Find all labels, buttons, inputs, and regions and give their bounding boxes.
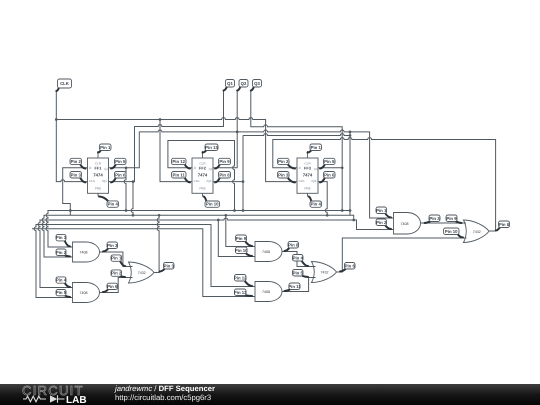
pin label FF3 pin 2 (D) bbox=[278, 158, 296, 168]
pin label AND1 pin 2 bbox=[56, 249, 70, 257]
junction bus B2 to middle AND3 input 1 bbox=[224, 214, 227, 217]
svg-text:7474: 7474 bbox=[93, 172, 103, 177]
svg-text:Q2: Q2 bbox=[209, 168, 213, 171]
wire FF3 Q3 output stub bbox=[318, 167, 343, 169]
svg-text:Pin 2: Pin 2 bbox=[71, 159, 82, 164]
svg-text:FF1: FF1 bbox=[95, 165, 103, 170]
pin label OR2 pin 5 bbox=[293, 270, 309, 278]
svg-text:Pin 10: Pin 10 bbox=[206, 202, 219, 207]
svg-text:Pin 1: Pin 1 bbox=[56, 235, 67, 240]
wire bus B4 to middle AND4 input 1 bbox=[34, 225, 255, 298]
junction CLK bus to FF2 branch bbox=[159, 118, 162, 121]
svg-text:Pin 2: Pin 2 bbox=[111, 271, 122, 276]
pin label OR1 pin 2 bbox=[111, 270, 125, 277]
pin label AND1 pin 3 output bbox=[103, 242, 118, 252]
svg-text:PRE: PRE bbox=[95, 187, 101, 191]
svg-text:Q3: Q3 bbox=[254, 81, 260, 86]
wire bus B2 bbox=[42, 215, 350, 257]
wire CLK branch to FF2 CLK input bbox=[160, 120, 192, 182]
junction /Q2 on bus B1 bbox=[242, 209, 245, 212]
pin label AND3 pin 10 bbox=[235, 247, 252, 256]
svg-text:Pin 3: Pin 3 bbox=[164, 263, 175, 268]
svg-text:Pin 5: Pin 5 bbox=[293, 270, 304, 275]
svg-text:Pin 3: Pin 3 bbox=[71, 172, 82, 177]
pin label FF3 pin 4 (PRE) bbox=[309, 197, 322, 208]
wire OR2 output to OR3 input 2 bbox=[337, 238, 467, 272]
wire Q3 label riser and bus drop bbox=[251, 91, 342, 211]
svg-text:Pin 4: Pin 4 bbox=[108, 202, 119, 207]
wire /Q2 line to long drop bbox=[243, 134, 350, 136]
wire FF2 /Q2 output stub bbox=[213, 181, 244, 183]
svg-text:7474: 7474 bbox=[198, 172, 208, 177]
svg-text:PRE: PRE bbox=[199, 187, 205, 191]
wire AND4 output to OR2 input 2 bbox=[282, 278, 316, 292]
wire CLK bus to FF3 CLK input bbox=[56, 118, 297, 182]
wire FF1 D input feed from bus bbox=[63, 168, 88, 216]
svg-text:7408: 7408 bbox=[80, 291, 88, 295]
pin label AND5 pin 1 bbox=[376, 207, 391, 218]
junction Q3 stub on riser bbox=[341, 166, 344, 169]
pin label AND4 pin 11 output bbox=[285, 283, 302, 291]
svg-text:7408: 7408 bbox=[80, 251, 88, 255]
pin label OR3 pin 10 bbox=[444, 228, 464, 238]
svg-text:Q1: Q1 bbox=[104, 168, 108, 171]
wire left OR output riser to bus B2 bbox=[154, 215, 159, 272]
pin label FF1 pin 6 (/Q1) bbox=[111, 172, 126, 183]
pin label AND2 pin 4 bbox=[56, 277, 70, 287]
svg-text:Pin 2: Pin 2 bbox=[278, 159, 289, 164]
wire long drop x350 stepping to right AND input 2 bbox=[350, 132, 394, 230]
pin label AND5 pin 3 output bbox=[425, 215, 441, 223]
svg-text:Pin 9: Pin 9 bbox=[219, 159, 230, 164]
svg-text:Pin 5: Pin 5 bbox=[115, 159, 126, 164]
pin label FF2 pin 9 (Q2) bbox=[215, 158, 231, 168]
wire FF2 D input over-the-top feed bbox=[168, 141, 235, 211]
wire AND3 output to OR2 input 1 bbox=[282, 252, 316, 267]
svg-text:Pin 6: Pin 6 bbox=[345, 263, 356, 268]
svg-text:7432: 7432 bbox=[473, 230, 481, 234]
svg-text:/Q2: /Q2 bbox=[206, 179, 211, 183]
pin label FF1 pin 2 (D) bbox=[70, 158, 86, 168]
svg-text:Pin 1: Pin 1 bbox=[376, 208, 387, 213]
AND gate 7408 (pins 9,10,8) middle cluster bbox=[255, 242, 282, 262]
svg-text:7432: 7432 bbox=[138, 271, 146, 275]
junction /Q1 on bus B2 bbox=[132, 214, 135, 217]
wire CLK label to FF1 CLK input bbox=[56, 91, 87, 182]
svg-text:Pin 8: Pin 8 bbox=[219, 172, 230, 177]
wire Q2 label to FF2 Q2 output bbox=[213, 91, 238, 168]
OR gate 7432 (pins 4,5,6) middle cluster bbox=[312, 262, 337, 283]
pin label FF2 pin 11 (CLK) bbox=[172, 172, 191, 183]
pin label OR2 pin 6 output bbox=[340, 263, 355, 272]
wire FF3 /Q3 output drop to bus B2 bbox=[318, 182, 328, 216]
junction OR1 output on bus B2 bbox=[158, 214, 161, 217]
pin label OR3 pin 9 bbox=[446, 215, 462, 223]
junction bus B3 to middle AND3 input 2 bbox=[217, 219, 220, 222]
svg-text:/Q3: /Q3 bbox=[311, 179, 316, 183]
svg-text:PRE: PRE bbox=[304, 187, 310, 191]
svg-text:Pin 11: Pin 11 bbox=[288, 284, 301, 289]
pin label OR3 pin 8 output bbox=[496, 221, 510, 231]
svg-text:/Q1: /Q1 bbox=[102, 179, 107, 183]
svg-text:Pin 6: Pin 6 bbox=[107, 284, 118, 289]
wire B2 drop to AND3 input 1 bbox=[226, 215, 255, 246]
svg-text:Pin 1: Pin 1 bbox=[111, 256, 122, 261]
junction long drop on Q1 line bbox=[349, 131, 352, 134]
svg-text:Q3: Q3 bbox=[314, 168, 318, 171]
svg-text:Pin 11: Pin 11 bbox=[173, 172, 186, 177]
junction Q3 on bus B1 bbox=[341, 209, 344, 212]
pin label FF3 pin 3 (CLK) bbox=[278, 172, 296, 183]
D flip-flop FF2 7474 bbox=[192, 151, 213, 196]
svg-text:Pin 4: Pin 4 bbox=[311, 202, 322, 207]
wire B3 drop to AND3 input 2 bbox=[218, 220, 255, 257]
wire bus B1 bbox=[46, 211, 350, 248]
pin label OR2 pin 4 bbox=[293, 255, 309, 267]
pin label AND2 pin 5 bbox=[56, 290, 70, 298]
svg-text:Pin 10: Pin 10 bbox=[235, 248, 248, 253]
svg-text:Pin 2: Pin 2 bbox=[376, 220, 387, 225]
D flip-flop FF1 7474 bbox=[88, 151, 109, 196]
pin label AND5 pin 2 bbox=[376, 219, 391, 229]
svg-text:Pin 10: Pin 10 bbox=[445, 229, 458, 234]
AND gate 7408 (pins 12,13,11) middle cluster bbox=[255, 282, 282, 302]
junction on FF1 /Q1 stub bbox=[132, 180, 135, 183]
wire AND2 output to OR1 input 2 bbox=[100, 278, 133, 293]
svg-text:Pin 3: Pin 3 bbox=[429, 216, 440, 221]
pin label AND3 pin 9 bbox=[236, 235, 253, 246]
D flip-flop FF3 7474 bbox=[297, 151, 318, 196]
node label Q2 bbox=[237, 80, 248, 91]
svg-text:LAB: LAB bbox=[66, 395, 87, 405]
AND gate 7408 (pins 1,2,3) right cluster bbox=[394, 213, 421, 235]
pin label FF2 pin 8 (/Q2) bbox=[215, 172, 231, 183]
junction /Q3 on bus B2 bbox=[326, 214, 329, 217]
svg-text:Pin 3: Pin 3 bbox=[107, 243, 118, 248]
svg-text:CLK: CLK bbox=[194, 179, 201, 183]
svg-text:Pin 5: Pin 5 bbox=[324, 159, 335, 164]
wire right OR output feedback to FF3 D input bbox=[273, 138, 496, 231]
svg-text:jandrewmc / DFF Sequencer: jandrewmc / DFF Sequencer bbox=[114, 384, 215, 393]
wire AND1 output to OR1 input 1 bbox=[100, 252, 133, 267]
wire /Q1 drop to bus B2 bbox=[131, 182, 133, 216]
OR gate 7432 (pins 1,2,3) left cluster bbox=[129, 262, 155, 283]
wire FF1 Q1 output to right AND input 1 bbox=[109, 130, 394, 218]
pin label FF3 pin 6 (/Q3) bbox=[320, 172, 335, 183]
node label Q3 bbox=[251, 80, 262, 91]
junction bus B1 end on long drop bbox=[349, 209, 352, 212]
pin label OR1 pin 1 bbox=[111, 255, 125, 266]
junction D1 feed on bus B1 bbox=[69, 209, 72, 212]
svg-text:7474: 7474 bbox=[303, 172, 313, 177]
pin label AND1 pin 1 bbox=[56, 234, 70, 246]
svg-text:Pin 5: Pin 5 bbox=[56, 290, 67, 295]
svg-text:7408: 7408 bbox=[401, 222, 409, 226]
svg-text:Pin 6: Pin 6 bbox=[115, 172, 126, 177]
svg-text:Pin 9: Pin 9 bbox=[446, 216, 457, 221]
pin label FF3 pin 1 (CLR) bbox=[308, 144, 322, 153]
wire bus B3 bbox=[38, 218, 354, 287]
svg-text:Pin 3: Pin 3 bbox=[278, 172, 289, 177]
junction bus B3 end on step bbox=[352, 219, 355, 222]
svg-text:http://circuitlab.com/c5pg6r3: http://circuitlab.com/c5pg6r3 bbox=[115, 393, 211, 402]
svg-text:Pin 8: Pin 8 bbox=[499, 222, 510, 227]
pin label FF1 pin 1 (CLR) bbox=[98, 144, 111, 153]
junction /Q2 line on long drop bbox=[349, 134, 352, 137]
junction CLK vertical / CLK bus bbox=[55, 118, 58, 121]
node label Q1 bbox=[224, 80, 235, 91]
wire Q1 drop to bus B1 bbox=[124, 168, 126, 211]
svg-text:Pin 6: Pin 6 bbox=[324, 172, 335, 177]
svg-text:Pin 13: Pin 13 bbox=[234, 290, 247, 295]
wire /Q2 riser and drop bbox=[242, 136, 244, 211]
CircuitLab logo resistor zigzag and diode symbol bbox=[23, 395, 65, 402]
junction Q1 on bus B1 bbox=[125, 209, 128, 212]
svg-text:7408: 7408 bbox=[262, 250, 270, 254]
AND gate 7408 (pins 1,2,3) left cluster bbox=[73, 242, 100, 262]
pin label OR1 pin 3 output bbox=[160, 263, 175, 272]
wire Q1 label to FF1 /Q1 output bbox=[109, 91, 224, 182]
junction on FF1 Q1 stub bbox=[125, 166, 128, 169]
junction Q2 riser on Q1 line bbox=[236, 131, 239, 134]
svg-text:7408: 7408 bbox=[262, 290, 270, 294]
svg-text:Pin 1: Pin 1 bbox=[311, 145, 322, 150]
pin label FF2 pin 13 (CLR) bbox=[203, 144, 219, 153]
pin label AND2 pin 6 output bbox=[103, 283, 118, 292]
pin label FF1 pin 3 (CLK) bbox=[70, 172, 86, 183]
svg-text:Q2: Q2 bbox=[241, 81, 247, 86]
pin label FF1 pin 4 (PRE) bbox=[99, 197, 119, 208]
junction D2 feed on bus B1 bbox=[233, 209, 236, 212]
svg-text:Pin 4: Pin 4 bbox=[293, 255, 304, 260]
pin label FF3 pin 5 (Q3) bbox=[320, 158, 335, 168]
wire bus B5 to middle AND4 input 2 bbox=[32, 229, 255, 297]
svg-text:7432: 7432 bbox=[321, 271, 329, 275]
svg-text:Pin 4: Pin 4 bbox=[56, 278, 67, 283]
svg-text:Pin 1: Pin 1 bbox=[100, 145, 111, 150]
svg-text:Q1: Q1 bbox=[227, 81, 233, 86]
svg-text:CLK: CLK bbox=[60, 81, 70, 86]
svg-text:FF2: FF2 bbox=[199, 165, 207, 170]
svg-text:CLK: CLK bbox=[89, 179, 96, 183]
AND gate 7408 (pins 4,5,6) left cluster bbox=[73, 283, 100, 303]
wire AND5 output to OR3 input 1 bbox=[421, 222, 467, 224]
svg-text:Pin 9: Pin 9 bbox=[236, 236, 247, 241]
pin label FF1 pin 5 (Q1) bbox=[111, 158, 126, 168]
junction on FF2 /Q2 stub bbox=[242, 180, 245, 183]
pin label AND3 pin 8 output bbox=[285, 242, 299, 252]
svg-text:FF3: FF3 bbox=[304, 165, 312, 170]
svg-text:Pin 13: Pin 13 bbox=[205, 145, 218, 150]
svg-text:Pin 2: Pin 2 bbox=[56, 250, 67, 255]
pin label FF2 pin 10 (PRE) bbox=[204, 197, 220, 208]
svg-text:Pin 8: Pin 8 bbox=[288, 242, 299, 247]
pin label AND4 pin 12 bbox=[234, 275, 252, 287]
pin label FF2 pin 12 (D) bbox=[172, 158, 191, 168]
OR gate 7432 (pins 9,10,8) right cluster bbox=[464, 220, 490, 243]
svg-text:Pin 12: Pin 12 bbox=[234, 275, 247, 280]
svg-text:CLK: CLK bbox=[299, 179, 306, 183]
svg-text:Pin 12: Pin 12 bbox=[172, 159, 185, 164]
node label CLK bbox=[56, 79, 71, 91]
pin label AND4 pin 13 bbox=[234, 289, 252, 296]
